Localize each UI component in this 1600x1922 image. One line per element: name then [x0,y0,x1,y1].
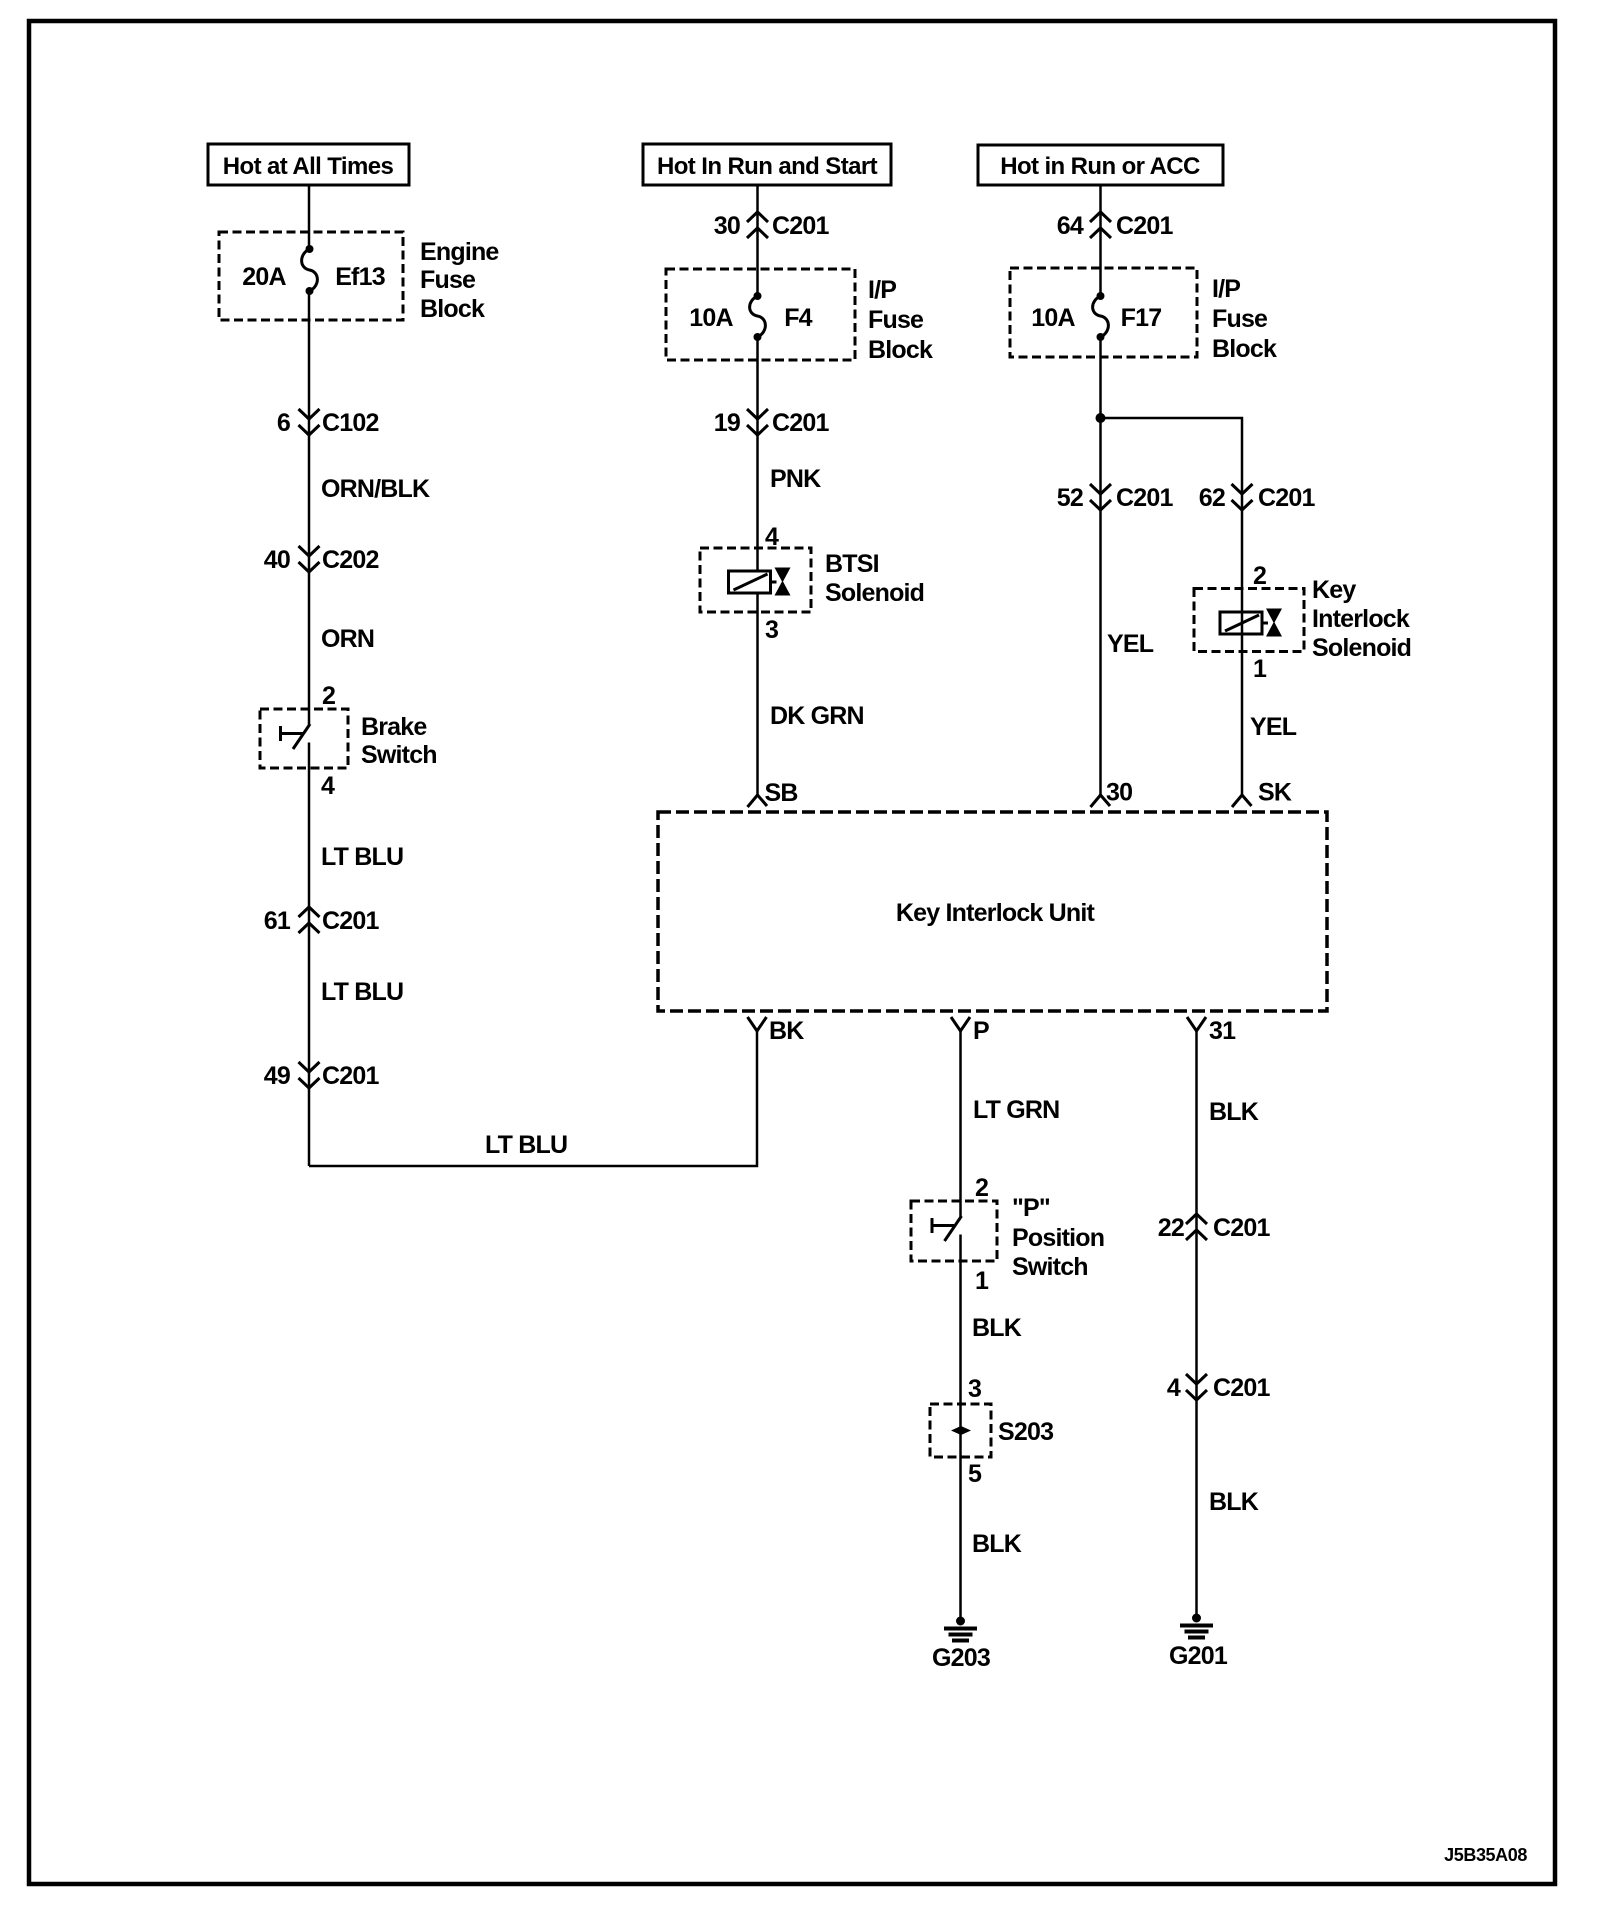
svg-text:C202: C202 [322,546,379,574]
svg-text:BLK: BLK [1209,1098,1259,1126]
connector 40 C202 [264,546,379,574]
svg-text:30: 30 [714,212,740,240]
svg-text:LT BLU: LT BLU [321,978,403,1006]
connector 61 C201 [264,907,380,935]
BTSI solenoid (dashed box) [700,548,811,612]
connector 19 C201 [714,409,830,437]
svg-text:C201: C201 [1213,1374,1270,1402]
svg-text:Brake: Brake [361,713,427,741]
svg-text:Solenoid: Solenoid [1312,634,1411,662]
svg-text:6: 6 [277,409,290,437]
svg-text:DK GRN: DK GRN [770,702,864,730]
ground G201 [1169,1614,1228,1671]
wire header to fuse F4 [756,185,759,296]
wire fuse F17 down to pin 30 [1099,337,1102,795]
label: Engine Fuse Block [420,238,499,323]
svg-text:PNK: PNK [770,465,821,493]
wire fuse to brake switch [308,291,311,726]
svg-text:C201: C201 [322,1062,379,1090]
svg-text:49: 49 [264,1062,290,1090]
key interlock unit U1 (dashed box) [658,812,1327,1011]
node: Hot In Run and Start header [643,144,891,185]
fuse Ef13 in Engine Fuse Block (dashed) [219,232,403,320]
svg-text:2: 2 [975,1174,988,1202]
svg-text:C201: C201 [1116,212,1173,240]
label: I/P Fuse Block [868,276,933,364]
wire switch to splice S203 [959,1235,962,1431]
pin BK leaving unit [748,1017,805,1045]
svg-text:Switch: Switch [1012,1253,1088,1281]
svg-text:20A: 20A [242,263,286,291]
svg-text:YEL: YEL [1107,630,1154,658]
wire: horizontal LT BLU run to BK [309,1031,757,1166]
svg-text:4: 4 [321,772,335,800]
wire S203 to ground G203 [959,1430,962,1621]
svg-text:2: 2 [322,682,335,710]
svg-text:Fuse: Fuse [420,266,476,294]
svg-text:Fuse: Fuse [868,306,924,334]
key interlock solenoid (dashed box) [1194,589,1304,652]
svg-text:P: P [973,1017,989,1045]
svg-text:Block: Block [1212,335,1277,363]
svg-text:5: 5 [968,1460,982,1488]
connector 22 C201 [1158,1214,1271,1242]
svg-text:10A: 10A [689,304,733,332]
label: "P" Position Switch [1012,1194,1104,1281]
svg-text:SB: SB [765,779,798,807]
connector 62 C201 [1199,484,1316,512]
svg-text:61: 61 [264,907,291,935]
svg-text:C201: C201 [322,907,379,935]
svg-text:LT BLU: LT BLU [321,843,403,871]
label: Key Interlock Solenoid [1312,576,1411,662]
svg-text:Key: Key [1312,576,1356,604]
connector 49 C201 [264,1062,380,1090]
pin SB entering unit [748,779,798,807]
label: I/P Fuse Block [1212,275,1277,363]
svg-text:Fuse: Fuse [1212,305,1268,333]
svg-text:F17: F17 [1121,304,1162,332]
svg-text:BTSI: BTSI [825,550,879,578]
svg-text:19: 19 [714,409,740,437]
svg-text:J5B35A08: J5B35A08 [1444,1845,1527,1865]
svg-text:ORN: ORN [321,625,374,653]
svg-text:S203: S203 [998,1418,1053,1446]
wire P pin to position switch [959,1031,962,1218]
node: Hot at All Times header [208,144,409,185]
connector 52 C201 [1057,484,1174,512]
svg-text:Solenoid: Solenoid [825,579,924,607]
svg-text:30: 30 [1106,779,1132,807]
label: Brake Switch [361,713,437,769]
svg-text:SK: SK [1258,779,1292,807]
wire brake switch to horizontal run [308,743,311,1167]
junction node [1096,413,1106,423]
svg-text:Engine: Engine [420,238,499,266]
svg-text:62: 62 [1199,484,1225,512]
svg-text:I/P: I/P [1212,275,1240,303]
node: Hot in Run or ACC header [978,145,1223,185]
svg-text:Hot in Run or ACC: Hot in Run or ACC [1000,153,1200,180]
svg-text:52: 52 [1057,484,1083,512]
svg-text:LT GRN: LT GRN [973,1096,1059,1124]
wire from header to fuse Ef13 [308,185,311,249]
svg-text:F4: F4 [784,304,812,332]
svg-text:40: 40 [264,546,290,574]
svg-text:BLK: BLK [1209,1488,1259,1516]
svg-text:ORN/BLK: ORN/BLK [321,475,430,503]
P position switch (dashed box with switch) [911,1201,997,1261]
svg-text:LT BLU: LT BLU [485,1131,567,1159]
connector 64 C201 [1057,212,1174,240]
svg-text:Ef13: Ef13 [335,263,385,291]
svg-text:64: 64 [1057,212,1084,240]
label: BTSI Solenoid [825,550,924,607]
svg-text:3: 3 [968,1375,981,1403]
svg-text:Key Interlock Unit: Key Interlock Unit [896,899,1096,927]
svg-text:Block: Block [420,295,485,323]
svg-text:YEL: YEL [1250,713,1297,741]
wire pin 31 to ground G201 [1195,1031,1198,1618]
pin 31 leaving unit [1187,1017,1236,1045]
svg-text:1: 1 [975,1267,989,1295]
svg-text:4: 4 [1167,1374,1181,1402]
svg-text:1: 1 [1253,655,1267,683]
wire BTSI to Key Interlock Unit pin SB [756,593,759,795]
connector 30 C201 [714,212,830,240]
svg-text:BLK: BLK [972,1314,1022,1342]
svg-text:G201: G201 [1169,1642,1228,1670]
svg-text:"P": "P" [1012,1194,1050,1222]
svg-text:3: 3 [765,616,778,644]
connector 4 C201 [1167,1374,1271,1402]
pin SK entering unit [1232,779,1292,808]
wire header to fuse F17 [1099,185,1102,296]
ground G203 [932,1617,990,1673]
svg-text:I/P: I/P [868,276,896,304]
svg-text:C201: C201 [1258,484,1315,512]
svg-text:31: 31 [1209,1017,1236,1045]
pin P leaving unit [951,1017,989,1045]
fuse F17 in I/P Fuse Block (dashed) [1010,268,1197,357]
wire fuse F4 to BTSI solenoid [756,337,759,571]
svg-text:C201: C201 [772,409,829,437]
connector 6 C102 [277,409,379,437]
svg-text:2: 2 [1253,562,1266,590]
svg-text:Hot In Run and Start: Hot In Run and Start [657,153,878,180]
svg-text:22: 22 [1158,1214,1184,1242]
svg-text:Switch: Switch [361,741,437,769]
svg-text:C201: C201 [1213,1214,1270,1242]
pin 30 entering unit [1091,779,1133,808]
fuse F4 in I/P Fuse Block (dashed) [666,269,855,360]
brake switch (dashed box with switch) [260,709,348,768]
svg-text:Hot at All Times: Hot at All Times [223,153,394,180]
svg-text:Block: Block [868,336,933,364]
svg-text:C201: C201 [1116,484,1173,512]
svg-text:G203: G203 [932,1644,990,1672]
svg-text:BLK: BLK [972,1530,1022,1558]
svg-text:BK: BK [769,1017,804,1045]
wire branch to key interlock solenoid [1101,418,1243,795]
svg-text:10A: 10A [1031,304,1075,332]
splice S203 (dashed box) [930,1404,1053,1457]
svg-text:Position: Position [1012,1224,1104,1252]
svg-text:C201: C201 [772,212,829,240]
svg-text:Interlock: Interlock [1312,605,1410,633]
svg-text:C102: C102 [322,409,379,437]
